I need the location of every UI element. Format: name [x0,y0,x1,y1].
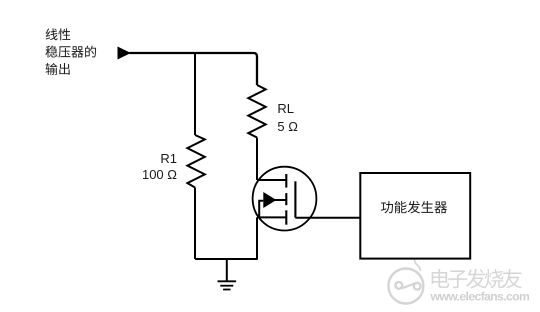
ground bar 1 [218,280,237,282]
svg-text:5 Ω: 5 Ω [277,119,298,134]
channel segment middle [285,193,287,205]
channel segment bottom [285,210,287,224]
wire: RL to drain [256,138,258,181]
svg-text:RL: RL [277,101,294,116]
transistor Q1 MOSFET circle [253,167,317,231]
body arrow triangle [263,192,276,208]
label: linear regulator output (3 lines CJK) [46,28,58,40]
svg-text:R1: R1 [160,151,177,166]
watermark logo elecfans [388,259,423,304]
label: function generator CJK [381,201,393,213]
wire: source down to rail [256,217,258,259]
channel segment top [285,174,287,188]
wire: drain stub [257,179,286,181]
gate bar [294,181,296,217]
ground stem [226,259,228,281]
wire: source stub [257,216,286,218]
wire: R1 bottom [194,188,196,260]
body arrow tip line [275,199,286,201]
wire: R1 branch top [194,53,196,135]
wire: top rail [130,53,258,85]
watermark text 电子发烧友 [432,269,450,288]
resistor RL zigzag [248,85,265,138]
wire: gate lead to box [295,217,360,219]
body arrow connector [259,201,263,218]
svg-text:www.elecfans.com: www.elecfans.com [430,289,530,303]
function generator box [360,173,470,259]
wire: bottom rail [195,258,258,260]
input arrow [118,47,130,58]
ground bar 3 [223,289,230,291]
ground bar 2 [220,285,233,287]
resistor R1 zigzag [187,135,204,188]
svg-text:100 Ω: 100 Ω [142,167,177,182]
